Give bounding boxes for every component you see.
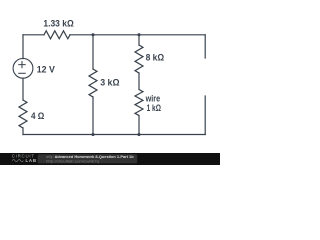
wire 8k branch top (138, 35, 140, 45)
svg-text:8 kΩ: 8 kΩ (146, 52, 164, 63)
node dot bottom B (137, 133, 140, 136)
node dot top B (137, 33, 140, 36)
footer info box (38, 154, 138, 163)
wire top-left horizontal segment (23, 34, 44, 36)
wire bottom horizontal (23, 134, 205, 136)
wire top horizontal to right corner (70, 34, 205, 36)
wire 3k branch top (92, 35, 94, 69)
node dot bottom A (91, 133, 94, 136)
footer bar (0, 153, 220, 165)
resistor R5 wire 1 kOhm (vertical zigzag) (135, 90, 143, 116)
svg-text:3 kΩ: 3 kΩ (100, 77, 120, 87)
resistor R2 3 kOhm (vertical zigzag) (89, 69, 97, 97)
wire right branch lower stub (204, 96, 206, 135)
svg-text:http://circuitlab.com/cwhb7q: http://circuitlab.com/cwhb7q (46, 158, 99, 163)
svg-text:1 kΩ: 1 kΩ (147, 103, 161, 113)
svg-text:1.33 kΩ: 1.33 kΩ (43, 18, 73, 29)
resistor R1 1.33 kOhm (horizontal zigzag) (44, 31, 70, 39)
voltage source V1 circle (13, 58, 33, 78)
CircuitLab logo waveform (12, 160, 23, 162)
resistor R4 4 Ohm (vertical zigzag) (19, 100, 27, 128)
wire between 8k and 1k (138, 73, 140, 89)
resistor R3 8 kOhm (vertical zigzag) (135, 45, 143, 73)
svg-text:4 Ω: 4 Ω (31, 110, 44, 121)
node dot top A (91, 33, 94, 36)
svg-text:12 V: 12 V (37, 64, 56, 74)
voltage source minus sign (19, 72, 25, 74)
wire left branch below source (22, 78, 24, 100)
wire 3k branch bottom (92, 97, 94, 135)
wire left branch bottom (22, 128, 24, 135)
wire left branch top (22, 35, 24, 59)
wire 1k branch bottom (138, 116, 140, 135)
svg-text:LAB: LAB (26, 158, 37, 163)
wire right branch upper stub (204, 35, 206, 58)
voltage source plus sign (19, 62, 25, 68)
